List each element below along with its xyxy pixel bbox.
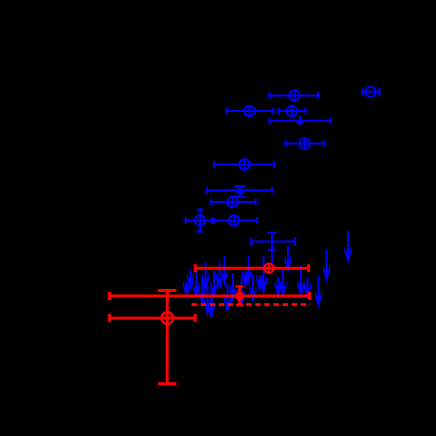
blue point M4 circled-plus <box>278 106 305 116</box>
red open circled-plus R2 <box>264 263 273 274</box>
red circled-plus R7 <box>161 312 173 324</box>
red line R3 with caps <box>110 292 310 300</box>
blue upper-limit arrow A19 <box>275 277 282 299</box>
blue point M10 circled-plus <box>186 210 215 232</box>
blue upper-limit arrow A13 <box>238 278 245 309</box>
blue upper-limit arrow A12 <box>230 273 237 303</box>
blue upper-limit arrow A22 <box>298 265 305 299</box>
blue upper-limit arrow A23 <box>304 278 311 301</box>
blue upper-limit arrow A21 <box>285 246 292 274</box>
blue upper-limit arrow A15 <box>245 256 252 285</box>
red line R8 with caps <box>110 314 196 322</box>
blue upper-limit arrow A3 <box>193 271 200 300</box>
blue upper-limit arrow A7 <box>208 288 215 320</box>
blue upper-limit arrow A2 <box>187 270 194 291</box>
red filled point R4 <box>235 287 244 306</box>
blue upper-limit arrow A25 <box>323 249 330 283</box>
blue triangle M8 <box>207 186 272 197</box>
blue upper-limit arrow A14 <box>242 272 249 290</box>
blue point M3 circled-plus <box>227 106 274 116</box>
red line R1 with caps <box>195 264 309 272</box>
blue point M11 circled-plus <box>212 215 257 225</box>
blue upper-limit arrow A9 <box>216 262 223 291</box>
blue upper-limit arrow A11 <box>224 284 231 314</box>
blue upper-limit arrow A5 <box>202 262 209 292</box>
blue upper-limit arrow A1 <box>183 282 190 300</box>
blue upper-limit arrow A8 <box>211 271 218 300</box>
blue point M1 circled-plus <box>270 90 319 100</box>
blue upper-limit arrow A4 <box>199 277 206 306</box>
blue point M9 circled-plus <box>211 197 255 207</box>
blue upper-limit arrow A20 <box>280 270 287 299</box>
blue point M6 circled-plus <box>286 138 325 148</box>
blue triangle M5 <box>270 116 331 127</box>
blue upper-limit arrow A16 <box>250 274 257 304</box>
blue point M7 circled-plus <box>214 159 274 169</box>
blue upper-limit arrow A26 <box>345 231 352 265</box>
red vertical bar R6 <box>158 291 177 384</box>
blue point M12 with limit tail <box>251 233 295 265</box>
blue upper-limit arrow A24 <box>315 276 322 309</box>
blue upper-limit arrow A17 <box>257 275 264 293</box>
red dashed line R5 <box>192 303 311 306</box>
blue upper-limit arrow A10 <box>221 256 228 287</box>
blue upper-limit arrow A18 <box>260 256 267 295</box>
blue point M2 circle <box>362 87 379 97</box>
blue upper-limit arrow A6 <box>204 286 211 317</box>
